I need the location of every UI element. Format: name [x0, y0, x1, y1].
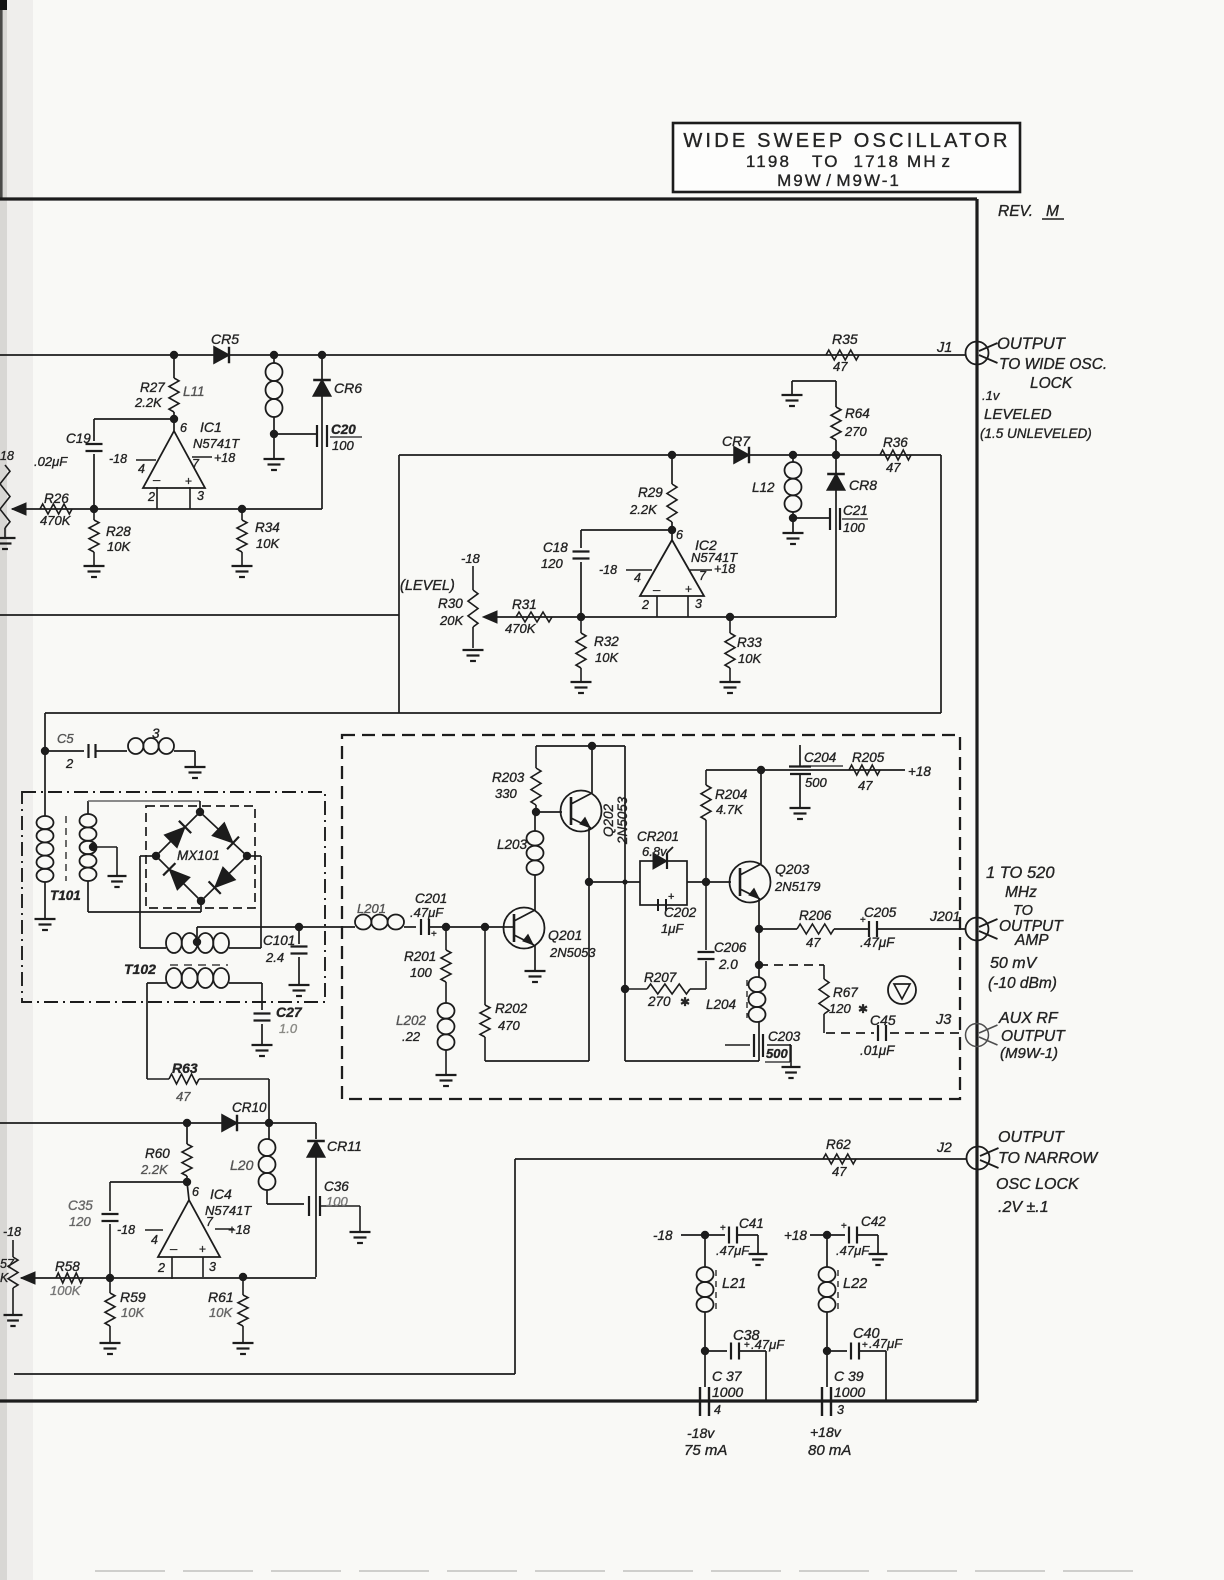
svg-text:R33: R33: [737, 635, 762, 650]
svg-text:C202: C202: [664, 905, 697, 920]
svg-text:500: 500: [766, 1046, 788, 1061]
transistor Q202: [561, 791, 631, 846]
inductor L204: [706, 977, 766, 1034]
label: 1 to 520 MHz output: [986, 864, 1064, 992]
junction R204/C206 node: [702, 878, 710, 886]
svg-text:M9W / M9W-1: M9W / M9W-1: [777, 171, 901, 190]
svg-text:(-10 dBm): (-10 dBm): [988, 975, 1057, 992]
svg-text:-18: -18: [653, 1228, 673, 1243]
svg-text:.1v: .1v: [982, 388, 1001, 403]
module border (top, right, bottom): [0, 199, 977, 1401]
svg-text:C35: C35: [68, 1198, 93, 1213]
svg-text:C204: C204: [804, 750, 836, 765]
svg-text:C20: C20: [331, 422, 356, 437]
wire: node to C20: [274, 433, 316, 435]
inductor L201: [355, 901, 416, 930]
junction C5 node: [41, 747, 49, 755]
svg-text:1 TO 520: 1 TO 520: [986, 864, 1055, 882]
svg-text:100: 100: [332, 438, 354, 453]
inductor L12: [752, 455, 802, 518]
svg-text:100K: 100K: [50, 1283, 82, 1298]
svg-text:-18: -18: [461, 551, 481, 566]
junction L11/C20 node: [264, 430, 285, 470]
svg-text:2N5053: 2N5053: [615, 796, 630, 845]
label: aux rf output: [998, 1010, 1066, 1062]
wire: doubler top rail: [536, 745, 625, 747]
svg-text:J3: J3: [935, 1012, 951, 1028]
svg-text:OUTPUT: OUTPUT: [1001, 1028, 1066, 1045]
capacitor C203: [725, 1029, 801, 1078]
svg-text:R32: R32: [594, 634, 619, 649]
svg-text:R205: R205: [852, 750, 885, 765]
svg-text:4: 4: [714, 1403, 721, 1417]
wire: Q203 collector: [760, 770, 762, 864]
svg-text:REV.: REV.: [998, 203, 1033, 220]
svg-text:CR8: CR8: [849, 477, 877, 493]
inductor L21: [697, 1235, 747, 1351]
resistor R29: [629, 455, 677, 530]
svg-text:10K: 10K: [107, 539, 131, 554]
svg-text:C206: C206: [714, 940, 747, 955]
svg-text:C 37: C 37: [712, 1368, 743, 1384]
label: -18v 75mA: [684, 1425, 727, 1459]
svg-text:6: 6: [676, 528, 683, 542]
junction R29 top: [668, 451, 676, 459]
svg-text:C45: C45: [870, 1012, 896, 1028]
svg-text:10K: 10K: [738, 651, 762, 666]
capacitor C5: [45, 731, 127, 771]
wire: J2 output rail: [14, 1159, 966, 1374]
wire: pin6 to C19: [94, 418, 174, 420]
svg-text:MX101: MX101: [177, 848, 220, 863]
wire: L12 to C21: [793, 517, 829, 519]
capacitor C42: [827, 1214, 888, 1265]
svg-text:C42: C42: [861, 1214, 886, 1229]
svg-text:R34: R34: [255, 520, 280, 535]
svg-text:.47μF: .47μF: [869, 1336, 903, 1351]
resistor R36: [880, 435, 911, 475]
wire: J201 output: [759, 928, 797, 930]
transistor Q203: [730, 861, 821, 903]
svg-text:7: 7: [192, 457, 200, 471]
svg-text:–: –: [153, 472, 161, 487]
svg-text:.01μF: .01μF: [860, 1043, 895, 1058]
wire: Q201 collector / L203: [497, 812, 544, 911]
wire: T101 sec bottom to MX101: [88, 881, 201, 912]
svg-text:C41: C41: [739, 1216, 764, 1231]
capacitor C18: [541, 530, 590, 617]
wire: CR201 to Q203 base: [687, 881, 731, 883]
junction R207 left node: [621, 985, 629, 993]
svg-text:1.0: 1.0: [279, 1021, 298, 1036]
capacitor C201: [410, 891, 447, 940]
svg-text:M: M: [1046, 203, 1059, 220]
svg-text:80 mA: 80 mA: [808, 1442, 851, 1459]
junction IC2 pin6 node: [668, 526, 676, 534]
svg-text:120: 120: [69, 1214, 91, 1229]
svg-text:R26: R26: [44, 491, 69, 506]
mixer MX101 dashed box: [146, 806, 255, 908]
svg-text:3: 3: [152, 726, 160, 741]
T102 center tap to output: [193, 927, 299, 946]
svg-text:330: 330: [495, 786, 517, 801]
resistor R26: [12, 491, 72, 528]
op-amp IC4: [117, 1182, 252, 1279]
svg-text:270: 270: [844, 424, 867, 439]
svg-text:C205: C205: [864, 905, 897, 920]
svg-text:2: 2: [65, 756, 74, 771]
svg-text:.47μF: .47μF: [716, 1243, 750, 1258]
diode CR11: [307, 1123, 362, 1194]
capacitor C101: [263, 923, 310, 996]
resistor R34: [232, 509, 281, 577]
op-amp IC1: [109, 419, 240, 509]
capacitor C202: [658, 891, 697, 936]
wire: top rail to J1: [0, 354, 966, 356]
junction R202 node: [481, 923, 489, 931]
svg-text:AUX RF: AUX RF: [998, 1010, 1059, 1027]
svg-text:4: 4: [138, 462, 145, 476]
junction CR8 top: [832, 451, 840, 459]
wire: IC1 feedback loop: [0, 614, 399, 616]
svg-text:-18v: -18v: [687, 1425, 715, 1441]
svg-text:2: 2: [157, 1261, 165, 1275]
junction at L11 top: [270, 351, 278, 359]
transformer T102 core: [124, 961, 228, 977]
svg-text:J2: J2: [936, 1139, 952, 1155]
svg-text:.47μF: .47μF: [860, 935, 895, 950]
capacitor C20: [317, 422, 362, 453]
potentiometer (left margin) -18 feed: [0, 449, 16, 549]
resistor R64: [782, 381, 870, 455]
svg-text:+: +: [668, 891, 674, 903]
svg-text:R203: R203: [492, 770, 525, 785]
svg-text:1000: 1000: [834, 1384, 865, 1400]
MX101 diode (right-bottom): [209, 867, 236, 894]
svg-text:L201: L201: [357, 901, 386, 916]
power label -18: [653, 1228, 705, 1243]
svg-text:18: 18: [0, 449, 14, 463]
svg-text:✱: ✱: [858, 1002, 868, 1016]
capacitor C19: [34, 419, 103, 509]
svg-text:.2V ±.1: .2V ±.1: [998, 1199, 1049, 1216]
svg-text:470K: 470K: [505, 621, 537, 636]
resistor R58: [21, 1259, 83, 1298]
svg-text:+18: +18: [784, 1228, 807, 1243]
svg-text:TO: TO: [1013, 903, 1033, 919]
label: +18v 80mA: [808, 1424, 851, 1459]
svg-text:LEVELED: LEVELED: [984, 406, 1052, 423]
junction L204 node: [755, 961, 763, 969]
junction C42 node: [823, 1231, 831, 1239]
svg-text:OSC LOCK: OSC LOCK: [996, 1176, 1080, 1193]
svg-text:3: 3: [197, 489, 204, 503]
diode CR8: [827, 455, 877, 617]
transformer T101 secondary: [80, 814, 97, 881]
svg-text:R63: R63: [172, 1060, 198, 1076]
svg-text:R35: R35: [832, 331, 858, 347]
svg-text:MHz: MHz: [1005, 884, 1037, 901]
svg-text:R207: R207: [644, 970, 677, 985]
junction R203/base node: [532, 808, 540, 816]
wire: MX101 right to T102: [229, 856, 261, 948]
svg-text:(1.5 UNLEVELED): (1.5 UNLEVELED): [980, 426, 1092, 441]
junction R60 top: [183, 1119, 191, 1127]
wire: Q202 collector: [591, 746, 593, 793]
resistor R33: [720, 617, 763, 693]
svg-text:C19: C19: [66, 431, 91, 446]
svg-text:Q201: Q201: [548, 927, 582, 943]
svg-text:K: K: [0, 1271, 9, 1285]
svg-text:R30: R30: [438, 596, 463, 611]
svg-text:.02μF: .02μF: [34, 454, 68, 469]
svg-text:270: 270: [647, 994, 671, 1009]
svg-text:1000: 1000: [712, 1384, 743, 1400]
svg-text:47: 47: [832, 1164, 847, 1179]
junction Q202 emitter node: [585, 878, 593, 886]
junction R34 node: [238, 505, 246, 513]
svg-text:–: –: [653, 582, 661, 597]
svg-text:100: 100: [410, 965, 432, 980]
power label +18: [784, 1228, 827, 1243]
svg-text:10K: 10K: [209, 1305, 233, 1320]
resistor R207: [625, 970, 706, 1009]
svg-text:J1: J1: [936, 340, 952, 356]
svg-text:.47μF: .47μF: [751, 1337, 785, 1352]
wire: IC4 input rail: [21, 1277, 316, 1279]
svg-text:J201: J201: [929, 908, 960, 924]
svg-text:-18: -18: [117, 1223, 135, 1237]
feedthrough capacitor C37: [700, 1351, 743, 1417]
svg-text:LOCK: LOCK: [1030, 375, 1073, 392]
svg-text:+: +: [199, 1242, 206, 1256]
diode CR10: [222, 1100, 267, 1131]
svg-text:470: 470: [498, 1018, 520, 1033]
capacitor C40: [827, 1326, 903, 1401]
svg-text:10K: 10K: [256, 536, 280, 551]
svg-text:L202: L202: [396, 1013, 427, 1028]
MX101 diode (bottom-left): [163, 863, 190, 890]
svg-text:L11: L11: [183, 384, 205, 399]
resistor R27: [134, 355, 179, 419]
mixer MX101 ring: [152, 808, 251, 905]
capacitor C38: [705, 1328, 785, 1401]
op-amp IC2: [599, 528, 738, 617]
svg-text:+: +: [862, 1340, 868, 1351]
junction R201 node: [442, 923, 450, 931]
svg-text:57: 57: [0, 1257, 15, 1271]
svg-text:C203: C203: [768, 1029, 801, 1044]
svg-text:.22: .22: [402, 1029, 421, 1044]
svg-text:R27: R27: [140, 380, 165, 395]
svg-text:120: 120: [541, 556, 563, 571]
svg-text:L21: L21: [722, 1276, 746, 1292]
svg-text:CR201: CR201: [637, 829, 679, 844]
svg-text:-18: -18: [599, 563, 617, 577]
junction at CR6 top: [318, 351, 326, 359]
wire: IC2 loop right side: [940, 455, 942, 713]
junction Q202 collector node: [588, 742, 596, 750]
svg-text:6: 6: [192, 1185, 199, 1199]
svg-text:10K: 10K: [595, 650, 619, 665]
zener CR201 with box: [637, 829, 687, 905]
connector J2: [936, 1139, 999, 1170]
svg-text:L203: L203: [497, 837, 528, 852]
svg-text:1198 TO 1718 MH z: 1198 TO 1718 MH z: [746, 152, 952, 171]
svg-text:500: 500: [805, 775, 827, 790]
transistor Q201: [504, 908, 597, 961]
svg-text:+18: +18: [714, 562, 735, 576]
resistor R205: [849, 750, 885, 793]
svg-text:47: 47: [886, 460, 901, 475]
wire: Q203 emitter: [758, 899, 760, 977]
connector J1: [936, 340, 998, 365]
svg-text:4: 4: [634, 571, 641, 585]
svg-text:100: 100: [326, 1194, 348, 1209]
svg-text:R202: R202: [495, 1001, 528, 1016]
svg-text:6: 6: [180, 421, 187, 435]
svg-text:L20: L20: [230, 1157, 254, 1173]
diode CR7: [722, 433, 751, 463]
svg-text:T101: T101: [50, 888, 81, 903]
svg-text:R67: R67: [833, 985, 858, 1000]
svg-text:+: +: [431, 929, 437, 940]
svg-text:2: 2: [147, 490, 155, 504]
transformer T102 secondary: [166, 968, 229, 988]
svg-text:+: +: [841, 1221, 847, 1232]
svg-text:2N5179: 2N5179: [774, 879, 821, 894]
transformer T101 core: [65, 816, 67, 881]
connector J3: [935, 1012, 998, 1047]
svg-text:.47μF: .47μF: [836, 1243, 870, 1258]
MX101 diode (top-right): [212, 822, 239, 849]
svg-text:+: +: [720, 1223, 726, 1234]
svg-text:CR7: CR7: [722, 433, 751, 449]
svg-text:+: +: [860, 915, 866, 926]
svg-text:10K: 10K: [121, 1305, 145, 1320]
wire: CR10 rail: [0, 1122, 316, 1124]
transformer T102 primary: [166, 933, 229, 953]
svg-text:C101: C101: [263, 933, 295, 948]
title block: [673, 123, 1020, 192]
svg-text:+: +: [685, 582, 692, 596]
svg-text:50 mV: 50 mV: [990, 955, 1038, 972]
inductor L20: [230, 1123, 304, 1204]
resistor R206: [797, 908, 834, 950]
dashed link to R67: [759, 964, 824, 966]
svg-text:7: 7: [206, 1215, 214, 1229]
svg-text:-18: -18: [3, 1225, 21, 1239]
wire: mixer out to L201: [299, 926, 355, 928]
resistor R28: [84, 509, 132, 577]
svg-text:R59: R59: [120, 1289, 146, 1305]
svg-text:6.8v: 6.8v: [642, 844, 668, 859]
svg-text:R64: R64: [845, 406, 870, 421]
svg-text:✱: ✱: [680, 995, 690, 1009]
svg-text:2.4: 2.4: [265, 950, 284, 965]
capacitor C36: [309, 1179, 371, 1277]
junction R33 node: [726, 613, 734, 621]
wire: IC2 bottom rail / T101 feed: [45, 712, 941, 714]
label: output to wide osc lock: [980, 335, 1107, 441]
junction L20 top: [265, 1119, 273, 1127]
inductor (3) input coil: [128, 726, 206, 778]
svg-text:470K: 470K: [40, 513, 72, 528]
svg-text:3: 3: [837, 1403, 844, 1417]
svg-text:+: +: [185, 474, 192, 488]
resistor R61: [208, 1277, 254, 1354]
capacitor C35: [68, 1182, 119, 1279]
svg-text:4.7K: 4.7K: [716, 802, 744, 817]
junction rail/base crossing: [622, 879, 627, 884]
capacitor C27: [252, 1004, 303, 1056]
resistor R63: [147, 1060, 269, 1123]
wire: T101 column: [44, 713, 46, 816]
svg-text:R36: R36: [883, 435, 908, 450]
svg-text:L12: L12: [752, 480, 775, 495]
dashed wire to J3: [890, 1032, 962, 1034]
svg-text:+18: +18: [214, 451, 235, 465]
svg-text:.47μF: .47μF: [410, 905, 444, 920]
svg-text:3: 3: [209, 1260, 216, 1274]
wire: Q201 emitter to ground: [525, 945, 546, 982]
label: output to narrow osc lock: [996, 1129, 1099, 1216]
junction IC4 pin6 node: [183, 1178, 191, 1186]
svg-text:2: 2: [641, 598, 649, 612]
svg-text:2.0: 2.0: [718, 957, 738, 972]
svg-text:AMP: AMP: [1014, 932, 1049, 949]
svg-text:R201: R201: [404, 949, 436, 964]
svg-text:7: 7: [699, 569, 707, 583]
svg-text:TO NARROW: TO NARROW: [998, 1150, 1099, 1167]
svg-text:47: 47: [833, 359, 848, 374]
svg-text:75 mA: 75 mA: [684, 1442, 727, 1459]
diode CR5: [211, 331, 239, 363]
wire: emitter node to CR201: [589, 881, 640, 883]
inductor L11: [183, 355, 283, 434]
svg-text:–: –: [170, 1241, 178, 1256]
shield box (dash-dot) around T101/T102/MX101: [22, 792, 325, 1002]
svg-text:Q203: Q203: [775, 861, 809, 877]
svg-text:+18: +18: [908, 764, 931, 779]
feedthrough symbol (circle-triangle): [888, 976, 916, 1004]
svg-text:(LEVEL): (LEVEL): [400, 578, 455, 594]
svg-text:C5: C5: [57, 731, 74, 746]
svg-text:CR10: CR10: [232, 1100, 267, 1115]
svg-text:OUTPUT: OUTPUT: [997, 335, 1067, 353]
junction IC1 pin6 node: [170, 415, 178, 423]
svg-text:2.2K: 2.2K: [134, 395, 163, 410]
svg-text:R28: R28: [106, 524, 131, 539]
potentiometer R30 (LEVEL): [400, 551, 484, 661]
junction C35/R59 node: [106, 1274, 114, 1282]
junction J201 wire node: [755, 925, 763, 933]
svg-text:N5741T: N5741T: [193, 436, 240, 451]
wire: MX101 left to T102: [140, 856, 166, 948]
wire: T102 sec left leg: [147, 983, 166, 1079]
wire: rail drop column: [625, 746, 759, 1061]
capacitor C45: [860, 1012, 896, 1058]
svg-text:-18: -18: [109, 452, 127, 466]
doubler section dashed box: [342, 735, 960, 1099]
wire: T101 sec top to MX101: [88, 801, 200, 814]
resistor R32: [571, 617, 620, 693]
junction C41 node: [701, 1231, 709, 1239]
svg-text:100: 100: [843, 520, 865, 535]
svg-text:R204: R204: [715, 787, 747, 802]
junction L12 top: [789, 451, 797, 459]
svg-text:3: 3: [695, 597, 702, 611]
